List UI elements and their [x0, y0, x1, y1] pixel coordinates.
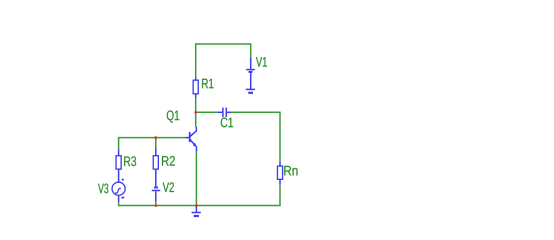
wire collector node down to Q1 collector	[195, 112, 197, 127]
capacitor C1	[218, 108, 232, 117]
wire left vertical top (corner to R3)	[118, 137, 120, 150]
resistor R2	[153, 149, 158, 187]
label C1	[221, 118, 233, 128]
wire V3 bottom stub	[118, 202, 120, 206]
transistor Q1	[185, 127, 197, 151]
label R3	[124, 156, 136, 166]
wire top horizontal (R1 top to V1 top)	[196, 43, 251, 45]
node: V2 bottom junction	[155, 204, 158, 207]
battery V2	[152, 188, 161, 202]
wire V1 top stub	[250, 43, 252, 58]
ground under V1	[246, 89, 255, 92]
label V2	[163, 182, 174, 192]
wire R1 bottom to collector node	[195, 98, 197, 113]
node: collector junction	[194, 111, 197, 114]
label R1	[202, 79, 213, 88]
node: base/R2 junction	[155, 136, 158, 139]
label R2	[162, 156, 175, 166]
label V1	[256, 57, 267, 66]
source V3	[112, 179, 125, 202]
label Q1	[167, 110, 179, 122]
wire vertical from top corner down to R1	[195, 43, 197, 77]
battery V1	[246, 58, 255, 89]
resistor R1	[193, 77, 198, 97]
wire bottom horizontal	[119, 205, 281, 207]
wire collector node to C1 left	[196, 111, 218, 113]
resistor Rn	[277, 161, 282, 184]
wire R2 branch top stub	[155, 138, 157, 149]
wire emitter down to ground node	[195, 151, 197, 206]
wire base horizontal (left corner to Q1 base)	[119, 137, 185, 139]
label V3	[98, 184, 108, 194]
wire right vertical down to Rn	[279, 112, 281, 162]
resistor R3	[116, 149, 121, 181]
label Rn	[284, 166, 297, 175]
wire V2 bottom stub	[155, 201, 157, 206]
wire C1 right to top-right corner	[231, 111, 280, 113]
ground (bottom center)	[192, 206, 201, 216]
node: emitter/ground junction	[195, 204, 198, 207]
wire Rn bottom to bottom-right corner	[279, 184, 281, 205]
